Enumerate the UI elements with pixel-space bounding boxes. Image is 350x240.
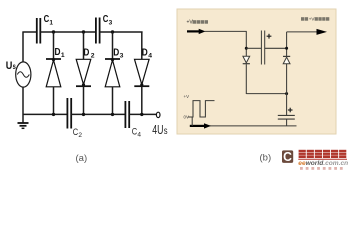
wire capacitor Cb2 to bottom bus	[286, 119, 288, 126]
wire D3 top vertical	[112, 32, 114, 59]
logo chinese text (mimic)	[299, 150, 347, 158]
input arrow	[187, 29, 206, 34]
label D3	[113, 47, 123, 60]
svg-text:U: U	[6, 60, 13, 72]
diode D4	[134, 59, 149, 86]
node dot D2 bottom	[82, 113, 85, 116]
plus polarity capacitor Cb2	[288, 108, 293, 113]
wire capacitor right to right branch	[265, 47, 287, 49]
label C1	[44, 14, 54, 27]
output wire	[287, 31, 318, 33]
wire left branch vertical lower	[245, 64, 247, 94]
svg-text:C: C	[44, 14, 50, 25]
capacitor C1	[37, 18, 41, 44]
svg-text:+V: +V	[187, 20, 194, 26]
wire top bus between C1 and C3	[40, 31, 96, 33]
node dot D4 bottom	[140, 113, 143, 116]
svg-text:4: 4	[137, 132, 141, 139]
wire D1 bottom vertical	[53, 87, 55, 115]
wire input to left branch	[205, 30, 247, 32]
label C4	[132, 127, 142, 139]
node dot left branch	[245, 47, 248, 50]
node dot D1 bottom	[52, 113, 55, 116]
source Us	[16, 62, 31, 87]
logo underline	[298, 158, 347, 160]
wire bottom bus middle	[71, 113, 125, 115]
label Us	[6, 60, 16, 72]
node dot above D3	[111, 30, 114, 33]
capacitor C2	[67, 98, 71, 129]
svg-text:(b): (b)	[260, 153, 272, 164]
svg-text:+V: +V	[309, 17, 315, 22]
wire node to capacitor left	[246, 47, 261, 49]
panel (a) background	[0, 0, 350, 176]
svg-text:s: s	[164, 126, 168, 137]
output terminal circle	[156, 112, 160, 117]
svg-text:D: D	[142, 47, 148, 59]
svg-text:1: 1	[61, 52, 65, 59]
bottom bus wire	[192, 125, 296, 127]
svg-text:3: 3	[109, 20, 113, 27]
wire source to ground	[22, 87, 24, 123]
svg-text:2: 2	[91, 53, 95, 60]
capacitor C3	[96, 18, 100, 44]
wire D1 top vertical	[53, 32, 55, 59]
wire right branch middle vertical	[286, 64, 288, 94]
diode Db2 cathode up	[283, 56, 290, 63]
wire D2 top vertical	[83, 32, 85, 60]
svg-text:0V: 0V	[184, 115, 189, 120]
diode D3	[105, 58, 120, 87]
node dot right branch lower	[285, 92, 288, 95]
svg-text:D: D	[113, 47, 119, 59]
diode Db1 cathode down	[243, 56, 250, 64]
wire right branch top corner	[286, 32, 288, 57]
svg-text:(a): (a)	[76, 153, 88, 164]
node dot D3 bottom	[111, 113, 114, 116]
svg-text:D: D	[55, 46, 61, 58]
wire right vertical down to D4	[141, 32, 143, 60]
bottom bold arrow	[190, 123, 211, 128]
ground	[18, 123, 29, 128]
square wave source	[188, 101, 215, 126]
logo faint row	[300, 167, 343, 170]
svg-text:4: 4	[148, 53, 152, 60]
label C3	[103, 14, 113, 27]
wire right branch to capacitor Cb2	[286, 94, 288, 116]
label C2	[73, 127, 83, 139]
wire left vertical from corner to source	[22, 32, 24, 63]
svg-text:+V: +V	[184, 94, 190, 99]
svg-text:4U: 4U	[152, 122, 163, 137]
wire bottom bus left	[23, 113, 67, 115]
diode D2	[76, 59, 91, 86]
wire left branch vertical upper	[245, 31, 247, 56]
diode D1	[46, 58, 61, 87]
output arrow head	[317, 29, 328, 35]
node dot above D1	[52, 30, 55, 33]
plus polarity capacitor Cb1	[267, 34, 272, 39]
capacitor Cb2 polarized	[278, 115, 295, 119]
svg-text:C: C	[103, 14, 109, 25]
wire bottom bus right	[129, 113, 156, 115]
wire top bus from C3 to right corner	[100, 31, 143, 33]
label output text (CJK mimic)	[301, 17, 329, 22]
wire top-left horizontal	[23, 31, 37, 33]
svg-text:s: s	[13, 62, 17, 71]
node dot above D2	[82, 30, 85, 33]
wire bottom connecting horizontal	[246, 93, 286, 95]
capacitor C4	[125, 101, 129, 128]
label D1	[55, 46, 65, 59]
capacitor Cb1	[261, 31, 264, 65]
label D4	[142, 47, 152, 60]
svg-text:3: 3	[120, 53, 124, 60]
svg-text:D: D	[83, 47, 89, 59]
label +V DC input (CJK mimic)	[187, 20, 209, 26]
svg-text:C: C	[283, 150, 292, 164]
wire D3 bottom vertical	[112, 87, 114, 115]
wire D2 bottom vertical	[83, 86, 85, 114]
logo red square	[282, 150, 293, 164]
svg-text:eeworld.com.cn: eeworld.com.cn	[298, 160, 348, 167]
label D2	[83, 47, 94, 60]
svg-text:2: 2	[78, 132, 82, 139]
panel (b) background	[177, 9, 336, 134]
node dot right branch upper	[285, 47, 288, 50]
label 4Us	[152, 122, 167, 137]
svg-text:1: 1	[49, 20, 53, 27]
wire D4 bottom vertical	[141, 86, 143, 114]
